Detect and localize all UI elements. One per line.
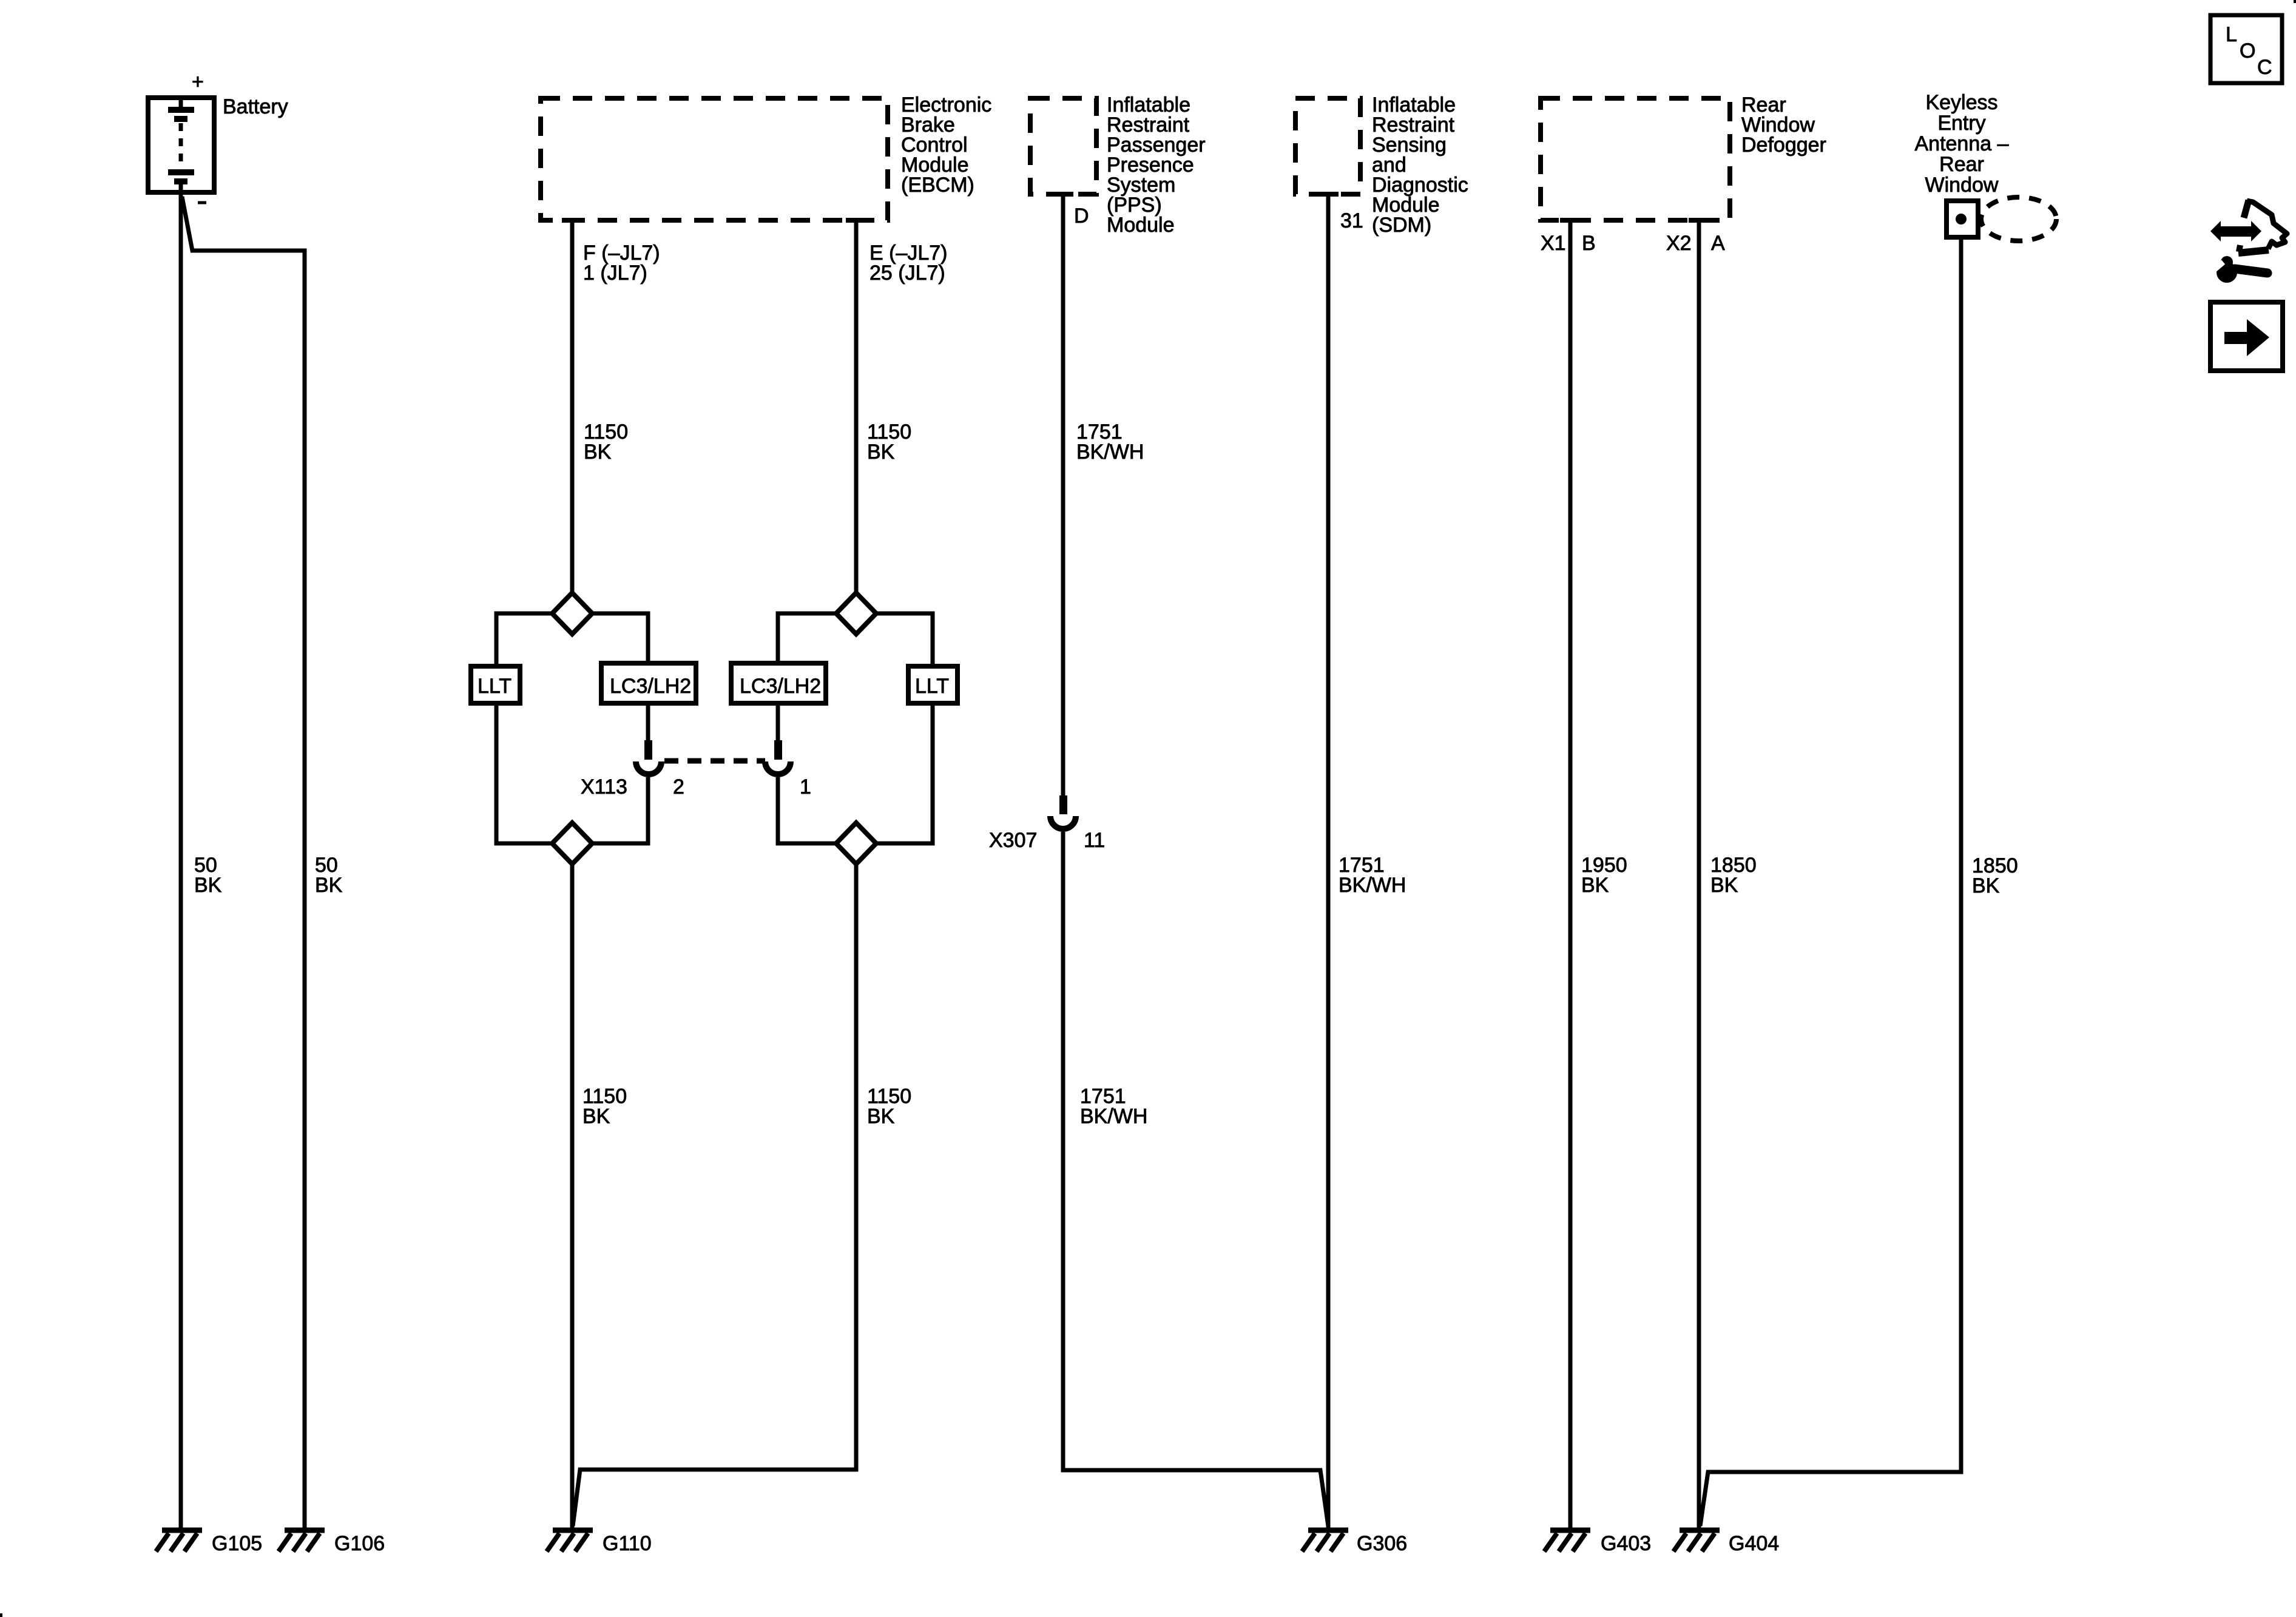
svg-text:1: 1: [800, 775, 811, 798]
svg-text:G403: G403: [1601, 1532, 1651, 1555]
svg-text:C: C: [2257, 56, 2272, 79]
connector X307 socket: [1050, 816, 1076, 829]
ground G106: [279, 1530, 385, 1555]
svg-text:LC3/LH2: LC3/LH2: [740, 675, 821, 698]
module SDM dashed box: [1295, 98, 1360, 194]
svg-text:BK: BK: [194, 874, 222, 897]
pin dash EBCM F: [562, 218, 582, 223]
svg-text:BK: BK: [1710, 874, 1738, 897]
wire SDM pin 31 to G306: [1326, 194, 1331, 1530]
svg-text:X307: X307: [989, 829, 1037, 852]
svg-text:Keyless: Keyless: [1925, 91, 1997, 114]
svg-text:Defogger: Defogger: [1741, 133, 1826, 157]
svg-text:BK: BK: [867, 441, 895, 464]
pin dash SDM 31: [1318, 192, 1339, 197]
svg-text:G110: G110: [603, 1532, 652, 1555]
wire: [496, 706, 552, 843]
fuse box LC3/LH2 left: [601, 663, 696, 703]
ground G110: [547, 1530, 652, 1555]
wire: [776, 706, 780, 740]
dashed connector link: [664, 758, 765, 764]
splice diamond top right: [836, 593, 876, 634]
corner mark top right: [2294, 0, 2296, 3]
svg-text:X1: X1: [1541, 232, 1566, 255]
svg-text:Module: Module: [1107, 214, 1175, 237]
wire battery negative to G105: [179, 195, 183, 1530]
antenna dashed ellipse: [1981, 197, 2056, 241]
svg-text:G105: G105: [212, 1532, 262, 1555]
svg-text:LLT: LLT: [915, 675, 949, 698]
connector X113 terminal 2 male: [644, 740, 652, 760]
svg-text:G404: G404: [1729, 1532, 1779, 1555]
wire EBCM pin F down to splice diamond: [570, 220, 575, 593]
svg-text:11: 11: [1084, 829, 1105, 852]
svg-text:(SDM): (SDM): [1372, 214, 1431, 237]
wire right loop LC3 side: [778, 613, 836, 661]
keyless entry antenna box: [1947, 201, 1978, 237]
module Rear Window Defogger dashed box: [1541, 98, 1730, 220]
battery: [148, 70, 214, 203]
wire defogger pin X2-A to G404: [1697, 220, 1701, 1530]
svg-text:BK: BK: [582, 1105, 610, 1128]
ground G105: [156, 1530, 262, 1555]
svg-text:Rear: Rear: [1939, 153, 1984, 176]
pin dash EBCM E: [846, 218, 866, 223]
svg-text:BK: BK: [315, 874, 343, 897]
wire bottom right diamond joining G110: [573, 864, 856, 1526]
wire bottom left diamond to G110: [570, 864, 575, 1530]
svg-text:B: B: [1582, 232, 1596, 255]
antenna dot: [1956, 214, 1967, 224]
connector X113 terminal 1 male: [774, 740, 782, 760]
svg-text:Window: Window: [1925, 174, 1999, 197]
svg-text:LC3/LH2: LC3/LH2: [610, 675, 691, 698]
svg-text:BK/WH: BK/WH: [1080, 1105, 1147, 1128]
pin dash defogger B: [1560, 218, 1581, 223]
wire: [646, 706, 650, 740]
splice diamond bottom right: [836, 823, 876, 864]
splice diamond bottom left: [552, 823, 592, 864]
icon vehicle with double arrow and wrench: [2210, 200, 2287, 283]
module defogger label: [1741, 93, 1826, 157]
module PPS label: [1107, 93, 1206, 237]
svg-text:31: 31: [1340, 209, 1363, 232]
svg-text:LLT: LLT: [478, 675, 512, 698]
svg-text:BK/WH: BK/WH: [1076, 441, 1144, 464]
svg-text:G106: G106: [334, 1532, 385, 1555]
wire EBCM pin E down to splice diamond: [854, 220, 859, 593]
wire right loop LLT side: [876, 613, 933, 664]
module PPS dashed box: [1030, 98, 1096, 194]
svg-text:D: D: [1074, 204, 1089, 228]
svg-text:BK: BK: [584, 441, 612, 464]
svg-text:X113: X113: [581, 775, 627, 798]
ground G306: [1302, 1530, 1407, 1555]
svg-text:A: A: [1711, 232, 1725, 255]
icon arrow box: [2210, 302, 2283, 371]
wire: [592, 777, 648, 843]
wire left loop LLT side: [496, 613, 552, 664]
svg-text:BK: BK: [1972, 874, 2000, 897]
svg-text:BK: BK: [1581, 874, 1609, 897]
connector X307 terminal male: [1059, 795, 1067, 814]
pin dash PPS D: [1053, 192, 1073, 197]
svg-text:(EBCM): (EBCM): [901, 174, 974, 197]
ground G403: [1544, 1530, 1651, 1555]
svg-text:2: 2: [673, 775, 684, 798]
svg-text:1 (JL7): 1 (JL7): [583, 262, 647, 285]
wire left loop LC3 side: [592, 613, 648, 661]
fuse box LLT left: [471, 666, 520, 703]
svg-text:G306: G306: [1357, 1532, 1407, 1555]
svg-text:BK/WH: BK/WH: [1339, 874, 1406, 897]
fuse box LC3/LH2 right: [731, 663, 826, 703]
wire battery negative branch to G106: [182, 197, 305, 1530]
corner mark bottom left: [0, 1613, 2, 1617]
wire X307 down and right to G306: [1063, 832, 1328, 1526]
svg-text:Entry: Entry: [1937, 112, 1985, 135]
ground G404: [1673, 1530, 1779, 1555]
connector X113 terminal 1 socket: [765, 761, 791, 774]
splice diamond top left: [552, 593, 592, 634]
svg-text:Battery: Battery: [223, 95, 288, 118]
svg-text:Antenna –: Antenna –: [1914, 132, 2008, 155]
fuse box LLT right: [908, 666, 957, 703]
wire: [876, 706, 933, 843]
module EBCM dashed box: [541, 98, 888, 220]
wire: [778, 777, 836, 843]
keyless entry antenna label: [1914, 91, 2008, 197]
svg-text:25 (JL7): 25 (JL7): [869, 262, 945, 285]
svg-text:BK: BK: [867, 1105, 895, 1128]
svg-text:X2: X2: [1666, 232, 1692, 255]
icon LOC box: [2210, 15, 2282, 83]
wire antenna to G404: [1700, 240, 1961, 1526]
pin dash defogger A: [1689, 218, 1709, 223]
connector X113 terminal 2 socket: [636, 761, 661, 774]
wire defogger pin X1-B to G403: [1568, 220, 1573, 1530]
svg-text:O: O: [2240, 39, 2255, 62]
svg-text:L: L: [2226, 23, 2237, 46]
module SDM label: [1372, 93, 1468, 237]
module EBCM label: [901, 93, 991, 197]
svg-text:+: +: [192, 70, 204, 93]
wire PPS pin D down to X307: [1061, 194, 1065, 795]
